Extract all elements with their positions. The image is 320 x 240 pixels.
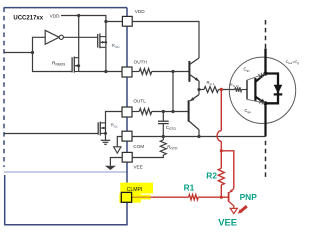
node: VDD rail / R_NMOS drain — [77, 14, 80, 17]
wire: CLMPI to R1 — [132, 196, 189, 198]
transistor R_NMOS body arrow — [75, 64, 79, 67]
arrow: COM open arrowhead — [114, 147, 121, 153]
node: COM rail / C_GTO R_GTO — [162, 135, 165, 138]
svg-text:OUTH: OUTH — [134, 60, 147, 65]
IC boundary UCC217xx: top border — [4, 7, 127, 9]
resistor R_G,int — [235, 87, 242, 91]
ground: earth under R_OL — [101, 139, 111, 141]
transistor Q2 PNP buffer — [188, 100, 190, 121]
wire: input from left border — [4, 52, 33, 54]
svg-text:VEE: VEE — [133, 164, 142, 169]
diode D1 loop — [264, 74, 278, 104]
resistor on OUTH — [139, 69, 152, 75]
node: PNP buffer collector on COM rail — [197, 135, 200, 138]
wire: R2 bottom to base — [220, 185, 222, 197]
capacitor C_GTO — [162, 112, 164, 122]
wire: VDD internal rail — [61, 16, 122, 22]
IGBT collector line — [264, 49, 266, 75]
resistor R_G,1 — [199, 89, 204, 91]
node: R_NMOS body/source — [77, 64, 80, 67]
wire: COM rail to IGBT emitter — [132, 136, 266, 138]
node: emitter node to R_G1 — [197, 88, 200, 91]
transistor Q3 PNP clamp: base bar — [228, 192, 230, 202]
IC boundary: bottom border — [4, 171, 127, 173]
pin box CLMPI — [121, 192, 131, 202]
node: R_OL source — [104, 132, 107, 135]
capacitor C_ge branch — [247, 99, 265, 103]
svg-text:UCC217xx: UCC217xx — [13, 15, 43, 21]
pin box VDD — [122, 16, 132, 26]
wire: OUTL external to PNP base — [132, 111, 139, 113]
VEE rail arrow symbol — [230, 208, 237, 213]
IGBT channel bar — [254, 78, 256, 101]
IGBT emitter diagonal with arrow — [256, 97, 263, 102]
transistor R_OH PMOS source stub — [100, 36, 106, 38]
transistor R_OH PMOS drain stub — [100, 46, 106, 48]
node: red tap on gate wire — [220, 88, 223, 91]
wire: R_OL gate from left border — [4, 133, 98, 135]
transistor R_OL drain stub — [100, 122, 105, 124]
node: R2 on base wire — [220, 196, 223, 199]
transistor R_NMOS body stub — [74, 65, 78, 67]
transistor R_NMOS source stub — [74, 71, 78, 73]
ground: VEE filled triangle — [105, 166, 116, 170]
yellow highlight overlay (tint) — [131, 195, 151, 200]
node: PMOS drain on OUTH — [104, 70, 107, 73]
transistor Q3 collector — [229, 202, 234, 209]
transistor R_OH PMOS channel bar — [99, 33, 101, 48]
node: OUTL/C_GTO tap — [162, 110, 165, 113]
transistor R_NMOS channel bar — [73, 57, 75, 73]
transistor Q1 NPN buffer — [188, 61, 190, 82]
wire: R_OL drain to OUTL — [106, 112, 123, 141]
svg-text:VDD: VDD — [135, 9, 146, 14]
inverter U1 triangle — [45, 30, 59, 44]
annotation red arrow to VEE — [241, 206, 247, 211]
transistor R_NMOS drain stub — [74, 57, 78, 59]
resistor R_GTO — [160, 140, 166, 155]
wire: push-pull emitters — [198, 81, 200, 95]
svg-text:PNP: PNP — [240, 192, 258, 202]
transistor R_OL body stub with arrow — [100, 127, 105, 129]
wire: red branch to PNP emitter — [221, 151, 234, 189]
resistor R1 — [189, 195, 199, 200]
node: OUTH/connector — [171, 70, 174, 73]
pin box VEE — [122, 152, 132, 162]
svg-text:OUTL: OUTL — [133, 99, 146, 104]
IGBT gate bar — [246, 80, 248, 99]
svg-text:CLMPI: CLMPI — [127, 187, 143, 193]
node: IGBT collector — [263, 71, 267, 75]
transistor R_OH PMOS body stub with arrow — [100, 41, 106, 43]
red clamp net: gate tap vertical — [220, 90, 222, 131]
resistor R2 — [218, 168, 224, 185]
wire: emitter dashed down — [265, 141, 267, 177]
svg-text:VDD: VDD — [50, 13, 61, 18]
transistor R_OH PMOS gate bar — [97, 34, 99, 48]
wire hop over COM rail — [217, 131, 221, 142]
node: OUTL/connector — [171, 110, 174, 113]
wire: connector OUTH to OUTL — [172, 72, 174, 112]
wire: PMOS lead vertical VDD to OUTH — [105, 22, 107, 72]
capacitor C_gc branch — [247, 74, 265, 80]
pin box OUTL — [122, 107, 132, 117]
svg-text:VEE: VEE — [218, 217, 237, 228]
wire: VEE pin left lead — [110, 158, 122, 166]
svg-text:COM: COM — [133, 144, 144, 149]
svg-text:R2: R2 — [206, 170, 217, 180]
wire: COM pin left lead — [117, 137, 122, 147]
IGBT module circle — [229, 57, 295, 123]
IGBT emitter line down — [264, 103, 266, 136]
transistor R_OL gate bar — [97, 122, 99, 134]
pin box COM — [122, 131, 132, 141]
wire: OUTH net internal — [79, 71, 123, 73]
IC boundary: right border / pin rail wire — [5, 8, 127, 225]
transistor Q3 emitter with arrow — [230, 189, 234, 193]
IGBT collector diagonal — [256, 73, 266, 82]
resistor on OUTL — [139, 109, 152, 115]
wire: VDD to NPN collector — [132, 22, 199, 59]
wire: R_GTO bottom to VEE pin — [132, 155, 163, 158]
wire: OUTH external to NPN base — [132, 71, 139, 73]
yellow highlight under CLMPI — [119, 183, 153, 203]
transistor R_NMOS: lead vertical — [78, 16, 80, 72]
transistor R_OL channel bar — [99, 122, 101, 136]
IC boundary: left border dashed — [3, 8, 5, 167]
wire: collector dashed up — [265, 20, 267, 49]
wire: inverter output to PMOS gate — [63, 36, 97, 38]
node: input junction — [31, 51, 34, 54]
wire: input up to inverter — [33, 37, 46, 52]
transistor R_OL source stub — [100, 132, 105, 134]
svg-text:R1: R1 — [184, 183, 195, 193]
wire: R1 to PNP base — [198, 196, 228, 198]
node: VDD rail / PMOS source — [104, 20, 107, 23]
wire: input down to R_NMOS gate — [33, 53, 73, 72]
red clamp net: vertical below hop — [220, 141, 222, 168]
transistor R_NMOS gate bar — [71, 57, 73, 72]
node: red emitter branch — [220, 149, 223, 152]
node: IGBT emitter — [263, 101, 267, 105]
pin box OUTH — [122, 67, 132, 77]
inverter U1 bubble — [59, 35, 63, 39]
